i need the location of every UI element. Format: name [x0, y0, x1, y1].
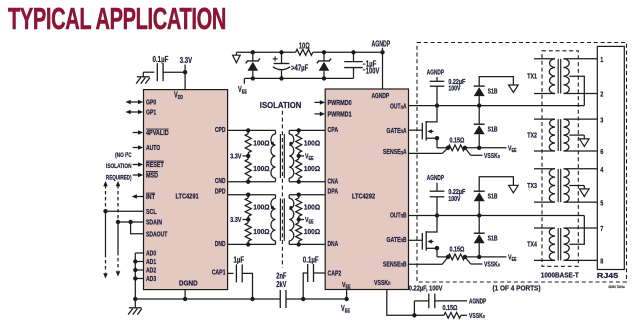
wire VSSKn pin drop [387, 290, 415, 316]
label S1B upper A [488, 86, 498, 95]
svg-text:A: A [403, 102, 407, 111]
svg-text:DPD: DPD [215, 186, 226, 195]
svg-text:S1B: S1B [488, 125, 498, 134]
svg-text:SDAOUT: SDAOUT [146, 229, 168, 238]
U2 pin label SENSEnB [383, 259, 407, 268]
node CPD primary tap [246, 154, 250, 158]
U1 pin label SDAOUT [146, 229, 168, 238]
node DPD secondary tap [297, 217, 301, 221]
svg-text:7: 7 [600, 224, 603, 233]
wire C4 left drop [303, 273, 308, 299]
U1 pin label INT [146, 192, 155, 201]
svg-text:8: 8 [600, 257, 603, 266]
label 0.15ohm B [450, 245, 465, 254]
wire OUTB rail [409, 215, 585, 217]
ground (chassis, VDD decoupling) [136, 72, 150, 83]
U1 label LTC4291 [176, 191, 199, 200]
svg-text:S1B: S1B [488, 234, 498, 243]
svg-text:(1 OF 4 PORTS): (1 OF 4 PORTS) [493, 283, 541, 292]
node QA source [435, 136, 439, 140]
label TX TX4 [527, 242, 537, 249]
label CPD primary 100ohm upper [253, 138, 269, 147]
wire source down B [437, 248, 448, 257]
node C2-rail [250, 297, 254, 301]
node cap-rail A [435, 103, 439, 107]
svg-text:0.15Ω: 0.15Ω [450, 245, 465, 254]
node SDAIN-SDAOUT tie [128, 220, 132, 224]
phase dot T1 secondary [289, 142, 292, 145]
svg-text:AD3: AD3 [146, 274, 156, 283]
phase dot T2 primary [271, 206, 274, 209]
svg-text:B: B [403, 210, 407, 219]
wire TX4 pin7 [564, 227, 598, 229]
label S1B lower B [488, 234, 498, 243]
zener D1 [246, 52, 260, 78]
svg-text:1µF: 1µF [234, 255, 245, 264]
svg-text:SCL: SCL [146, 207, 157, 216]
svg-text:GP0: GP0 [146, 98, 156, 107]
wire bottom VEE rail [244, 77, 353, 79]
bidirectional arrow GP0 [126, 100, 144, 105]
label RJ45 pin 2 [600, 90, 603, 99]
wire SDAOUT loop [131, 222, 144, 234]
wire VDD down [184, 72, 186, 89]
U1 pin label 4PVALID [146, 128, 169, 137]
wire top rail right [313, 51, 383, 53]
svg-text:1: 1 [600, 55, 603, 64]
svg-text:VSSK: VSSK [469, 311, 483, 320]
node SDA-iso junction [116, 220, 120, 224]
U2 pin label DPA [328, 187, 339, 196]
svg-text:EE: EE [512, 257, 517, 263]
wire VEE pin drop [346, 290, 348, 300]
U1 pin VDD label [174, 91, 183, 102]
svg-text:3.3V: 3.3V [230, 215, 242, 224]
label 3.3V tap CPD [230, 151, 248, 160]
wire OUTA rail [409, 105, 585, 107]
svg-text:OUT: OUT [390, 102, 401, 111]
transformer T1 secondary winding [289, 130, 294, 181]
wire DPA [289, 194, 325, 196]
resistor DPD primary 100ohm lower [245, 220, 251, 245]
U2 pin label PWRMD1 [328, 110, 352, 119]
resistor R1 10ohm [296, 42, 313, 56]
node DPD secondary bottom [297, 242, 301, 246]
U1 pin label MSD [146, 171, 159, 180]
svg-text:0.22µF: 0.22µF [448, 189, 465, 196]
node C6 top [351, 50, 355, 54]
U1 pin label RESET [146, 160, 164, 169]
svg-text:GP1: GP1 [146, 108, 156, 117]
transformer TX2 core [558, 119, 561, 151]
U2 pin label GATEnA [386, 126, 406, 135]
input arrow MSD [133, 173, 144, 178]
U2 pin label CPA [328, 125, 339, 134]
label 0.22uF 100V bulk [409, 283, 443, 292]
capacitor 0.22uF channel B [430, 183, 466, 216]
svg-text:TX4: TX4 [527, 242, 537, 249]
svg-text:TX2: TX2 [527, 133, 537, 140]
svg-text:CNA: CNA [328, 177, 339, 186]
transformer TX3 secondary winding [564, 169, 570, 202]
label VSSKn bulk [469, 311, 485, 320]
label CPD secondary 100ohm lower [304, 164, 320, 173]
U2 pin label CAP2 [328, 268, 342, 277]
U1 pin label CAP1 [212, 268, 226, 277]
wire CPD [228, 129, 276, 131]
U1 pin DGND label [179, 278, 198, 287]
diode S1B upper channel B [474, 191, 485, 215]
U2 pin label SENSEnA [383, 147, 407, 156]
svg-text:SDAIN: SDAIN [146, 218, 162, 227]
svg-text:AGNDP: AGNDP [372, 40, 391, 49]
label VEE top-left [238, 85, 247, 96]
label RJ45 pin 4 [600, 165, 604, 174]
svg-text:DD: DD [178, 95, 183, 101]
label VSSKn channel B [484, 260, 500, 269]
svg-text:100V: 100V [366, 67, 380, 76]
node ADbus-rail [133, 297, 137, 301]
svg-text:CAP2: CAP2 [328, 268, 342, 277]
node VDD junction [183, 70, 187, 74]
svg-text:B: B [403, 259, 407, 268]
label AGNDP top [372, 40, 391, 49]
node DPD secondary top [297, 193, 301, 197]
label (1 OF 4 PORTS) [493, 283, 541, 292]
svg-text:DGND: DGND [179, 278, 198, 287]
wire SENSEB [409, 257, 449, 264]
wire C1 to VDD node [163, 71, 185, 73]
node rail-diodes A [477, 103, 481, 107]
U1 pin label SDAIN [146, 218, 162, 227]
label VEE tap DPD [299, 215, 314, 226]
label VEE tap CPD [299, 151, 314, 162]
resistor CPD secondary 100ohm upper [296, 130, 302, 156]
wire gnd to C1 [143, 71, 154, 73]
off-page arrow (AGND) [233, 52, 241, 63]
svg-text:100Ω: 100Ω [253, 164, 269, 173]
svg-text:S1B: S1B [488, 86, 498, 95]
svg-text:GATE: GATE [386, 235, 400, 244]
label DPD secondary 100ohm upper [304, 202, 320, 211]
U1 pin label AD3 [146, 274, 156, 283]
svg-text:CPD: CPD [215, 125, 226, 134]
label S1B lower A [488, 125, 498, 134]
svg-text:AGNDP: AGNDP [427, 173, 444, 182]
label 0.15ohm A [450, 136, 465, 145]
node sense resistor right A [463, 146, 467, 150]
wire TX2 center tap [569, 135, 584, 139]
label VEE channel A [508, 143, 517, 154]
wire CPA [289, 129, 325, 131]
U2 pin label CNA [328, 177, 339, 186]
svg-text:100V: 100V [448, 86, 460, 93]
svg-text:AGNDP: AGNDP [469, 296, 486, 305]
node AD2 [133, 268, 137, 272]
node CPD secondary tap [297, 154, 301, 158]
wire DGND rail [135, 298, 280, 300]
svg-text:100V: 100V [448, 196, 460, 203]
output arrow INT [132, 194, 144, 199]
svg-text:PWRMD1: PWRMD1 [328, 110, 352, 119]
label RJ45 pin 8 [600, 257, 603, 266]
svg-text:DND: DND [215, 239, 226, 248]
svg-text:42891 TA01a: 42891 TA01a [608, 285, 625, 289]
transformer TX1 secondary winding [564, 59, 570, 94]
label RJ45 pin 7 [600, 224, 603, 233]
svg-text:n: n [483, 314, 486, 320]
wire to VEE A [465, 147, 507, 149]
off-page arrow TX2 tap [580, 139, 590, 147]
svg-text:6: 6 [600, 147, 603, 156]
transformer TX3 core [558, 169, 561, 202]
i2c iso arrow line1 (SCL) [103, 181, 108, 279]
svg-text:AGNDP: AGNDP [427, 68, 444, 77]
svg-text:EE: EE [242, 90, 247, 96]
transformer TX2 primary winding [534, 119, 555, 151]
svg-text:100Ω: 100Ω [253, 138, 269, 147]
node rail-diodes B [477, 213, 481, 217]
svg-text:(NO I: (NO I [115, 152, 127, 159]
U2 pin label VSSKn [374, 278, 391, 287]
node CPD secondary top [297, 128, 301, 132]
svg-text:PWRMD0: PWRMD0 [328, 98, 352, 107]
svg-text:DNA: DNA [328, 239, 339, 248]
U2 pin label PWRMD0 [328, 98, 352, 107]
transformer TX4 secondary winding [564, 228, 570, 260]
node CPD primary top [246, 128, 250, 132]
diode S1B lower channel B [474, 216, 485, 257]
svg-text:3.3V: 3.3V [180, 56, 193, 65]
node CPD primary bottom [246, 180, 250, 184]
svg-text:100Ω: 100Ω [253, 202, 269, 211]
wire VEE rail (right of C3) [286, 298, 347, 300]
wire SDAIN [118, 221, 144, 223]
U1 pin label AD0 [146, 249, 156, 258]
wire CAP1 [228, 272, 234, 274]
bidirectional arrow GP1 [126, 110, 144, 115]
wire S1B to spare-pair arrow A [479, 77, 513, 87]
U2 pin label OUTnB [390, 210, 407, 219]
capacitor C2 1uF [234, 255, 245, 282]
label DPD secondary 100ohm lower [304, 227, 320, 236]
magnetics dashed box [542, 51, 578, 266]
capacitor C6 1uF 100V [344, 52, 380, 78]
wire DNA [289, 243, 325, 245]
svg-text:SENSE: SENSE [383, 259, 401, 268]
wire source down A [437, 138, 448, 148]
node sense resistor right B [463, 255, 467, 259]
svg-text:REQUIRED): REQUIRED) [106, 174, 132, 181]
resistor 0.15ohm channel A [448, 145, 465, 151]
transistor QB gate wire [409, 239, 423, 241]
transformer TX4 core [558, 228, 561, 260]
svg-text:100Ω: 100Ω [304, 138, 320, 147]
transformer TX2 secondary winding [564, 119, 570, 151]
transformer T1 core [280, 134, 284, 178]
node AD3 [133, 276, 137, 280]
ground (chassis, DGND) [128, 299, 142, 315]
svg-text:VSSK: VSSK [484, 260, 498, 269]
U2 pin label DNA [328, 239, 339, 248]
wire S1B to spare-pair arrow B [479, 177, 513, 191]
svg-text:C: C [128, 152, 131, 159]
svg-text:DPA: DPA [328, 187, 339, 196]
svg-text:ISOLATION: ISOLATION [260, 101, 302, 110]
node SCL-iso junction [103, 209, 107, 213]
capacitor C5 >47uF electrolytic [273, 52, 309, 78]
phase dot T1 primary [271, 142, 274, 145]
U1 pin label DPD [215, 186, 226, 195]
off-page arrow TX3 tap [580, 189, 590, 197]
node DPD primary top [246, 193, 250, 197]
capacitor C1 0.1uF [153, 55, 169, 81]
IC U1 LTC4291 body [144, 90, 228, 290]
svg-text:>47µF: >47µF [291, 63, 308, 72]
wire SENSEA [409, 148, 449, 154]
capacitor C3 2nF 2kV [276, 271, 287, 308]
transformer T2 secondary winding [289, 195, 294, 245]
svg-text:EE: EE [345, 309, 350, 315]
svg-text:EE: EE [309, 219, 314, 225]
wire CND [228, 181, 276, 183]
label 1000BASE-T [541, 270, 580, 279]
svg-text:2kV: 2kV [276, 280, 287, 289]
node D1 bottom [251, 76, 255, 80]
i2c iso arrow line2 (SDA) [116, 181, 121, 277]
node QB source [435, 246, 439, 250]
svg-text:EE: EE [346, 285, 351, 291]
label RJ45 pin 1 [600, 55, 603, 64]
label S1B upper B [488, 192, 498, 201]
U1 pin label DND [215, 239, 226, 248]
wire AGNDP down [382, 48, 384, 89]
svg-text:1000BASE-T: 1000BASE-T [541, 270, 580, 279]
label 3.3V supply [180, 56, 193, 65]
wire TX3 center tap [569, 186, 584, 189]
node VSSKn junction [412, 313, 416, 317]
svg-text:A: A [403, 147, 407, 156]
node D1 top [251, 50, 255, 54]
wire TX1 center tap to OUT rail [569, 76, 584, 105]
svg-text:n: n [498, 263, 501, 269]
input arrow 4PVALID [133, 130, 144, 135]
label VEE bottom [341, 304, 350, 315]
resistor DPD secondary 100ohm lower [296, 220, 302, 245]
svg-text:EE: EE [309, 156, 314, 162]
label TX TX1 [527, 74, 537, 81]
wire TX1 pin2 [564, 93, 598, 95]
U2 pin label OUTnA [390, 102, 407, 111]
node sense resistor left B [446, 255, 450, 259]
U2 pin label VEE [342, 280, 351, 291]
svg-text:100Ω: 100Ω [304, 202, 320, 211]
svg-text:A: A [403, 126, 407, 135]
diode S1B upper channel A [474, 86, 485, 106]
label CPD secondary 100ohm upper [304, 138, 320, 147]
node S1B anode A [477, 146, 481, 150]
wire 3.3V stub [184, 65, 186, 73]
svg-text:CPA: CPA [328, 125, 339, 134]
label VSSKn channel A [484, 151, 500, 160]
phase dot T2 secondary [289, 206, 292, 209]
node C4-rail [301, 297, 305, 301]
resistor DPD secondary 100ohm upper [296, 195, 302, 220]
label AGNDP channel B [427, 173, 444, 182]
svg-text:100Ω: 100Ω [253, 227, 269, 236]
svg-text:2: 2 [600, 90, 603, 99]
node DPD primary bottom [246, 242, 250, 246]
input arrow PWRMD1 [315, 112, 326, 117]
note NO I2C line2 [106, 163, 132, 170]
svg-text:3: 3 [600, 115, 603, 124]
svg-text:TX3: TX3 [527, 183, 537, 190]
wire TX4 pin8 [564, 259, 598, 261]
wire TX3 pin5 [564, 201, 598, 203]
transformer T2 primary winding [271, 195, 276, 245]
transistor QA [422, 106, 437, 141]
label DPD primary 100ohm upper [253, 202, 269, 211]
U1 pin label AUTO [146, 143, 160, 152]
off-page arrow spare pair A [509, 85, 519, 93]
wire TX2 pin3 [564, 118, 598, 120]
resistor CPD secondary 100ohm lower [296, 156, 302, 182]
svg-text:TX1: TX1 [527, 74, 537, 81]
svg-text:SENSE: SENSE [383, 147, 401, 156]
node VEE rail [344, 297, 348, 301]
transformer TX4 primary winding [534, 228, 555, 260]
svg-text:CND: CND [215, 176, 226, 185]
label VEE channel B [508, 252, 517, 263]
svg-text:OUT: OUT [390, 210, 401, 219]
label RJ45 pin 6 [600, 147, 603, 156]
label TX TX2 [527, 133, 537, 140]
capacitor 0.22uF bulk [414, 294, 467, 316]
wire to VEE B [465, 256, 507, 258]
node AD1 [133, 259, 137, 263]
port boundary dashed box [417, 43, 627, 283]
U1 pin label SCL [146, 207, 157, 216]
transformer TX1 primary winding [534, 59, 555, 94]
label RJ45 pin 5 [600, 198, 603, 207]
svg-text:100Ω: 100Ω [304, 227, 320, 236]
label CPD primary 100ohm lower [253, 164, 269, 173]
svg-text:0.1µF: 0.1µF [303, 256, 319, 265]
title [8, 2, 226, 36]
IC U2 LTC4292 body [325, 89, 408, 290]
label AGNDP channel A [427, 68, 444, 77]
label 3.3V tap DPD [230, 215, 248, 224]
label 0.15ohm bulk [443, 303, 458, 312]
zener D2 [317, 52, 331, 78]
transistor QA gate wire [409, 129, 423, 131]
transformer T2 core [280, 198, 284, 241]
capacitor C4 0.1uF [303, 256, 319, 282]
label TX TX3 [527, 183, 537, 190]
capacitor 0.22uF channel A [430, 77, 466, 106]
wire VSSKn branch A [465, 148, 483, 156]
resistor DPD primary 100ohm upper [245, 195, 251, 220]
node D2 bottom [322, 76, 326, 80]
wire DGND pin drop [184, 290, 186, 299]
wire AD bus [135, 253, 143, 299]
wire DND [228, 243, 276, 245]
transformer TX3 primary winding [534, 169, 555, 202]
transformer T1 primary winding [271, 130, 276, 181]
doc number [608, 285, 625, 289]
node DPD primary tap [246, 217, 250, 221]
note NO I2C line1 [115, 151, 132, 159]
